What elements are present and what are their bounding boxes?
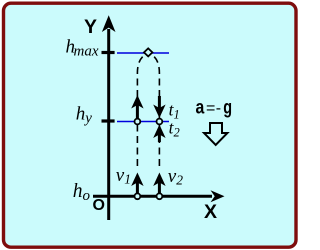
hollow down block arrow	[204, 123, 227, 145]
svg-text:g: g	[223, 98, 232, 119]
svg-text:a: a	[196, 98, 205, 119]
svg-text:-: -	[216, 100, 221, 117]
circle marker at origin of v1	[135, 193, 141, 199]
trajectory dashed path (right branch)	[149, 53, 160, 166]
up arrow t2 on right line	[153, 125, 165, 143]
circle marker at h_y on left line	[135, 119, 141, 125]
circle marker at origin of v2	[157, 193, 163, 199]
X axis	[93, 195, 212, 198]
h_max tick	[102, 51, 115, 54]
velocity arrow v2	[153, 173, 165, 196]
svg-text:=: =	[206, 100, 215, 117]
down arrow t1 on right line	[153, 96, 165, 118]
circle marker at h_y on right line	[157, 119, 163, 125]
Y axis	[107, 29, 110, 220]
up arrow at h_y on left line	[131, 95, 143, 118]
apex diamond marker	[144, 48, 152, 56]
svg-text:X: X	[204, 201, 217, 223]
X axis arrowhead	[211, 190, 225, 202]
h_max blue level line	[117, 52, 169, 54]
h_y tick	[102, 119, 115, 122]
acceleration text a = - g	[196, 98, 233, 119]
svg-text:Y: Y	[84, 16, 97, 38]
svg-text:O: O	[93, 197, 105, 214]
h_y blue level line	[117, 121, 169, 123]
Y axis arrowhead	[102, 15, 116, 32]
velocity arrow v1	[131, 173, 143, 196]
trajectory dashed path	[137, 53, 148, 166]
